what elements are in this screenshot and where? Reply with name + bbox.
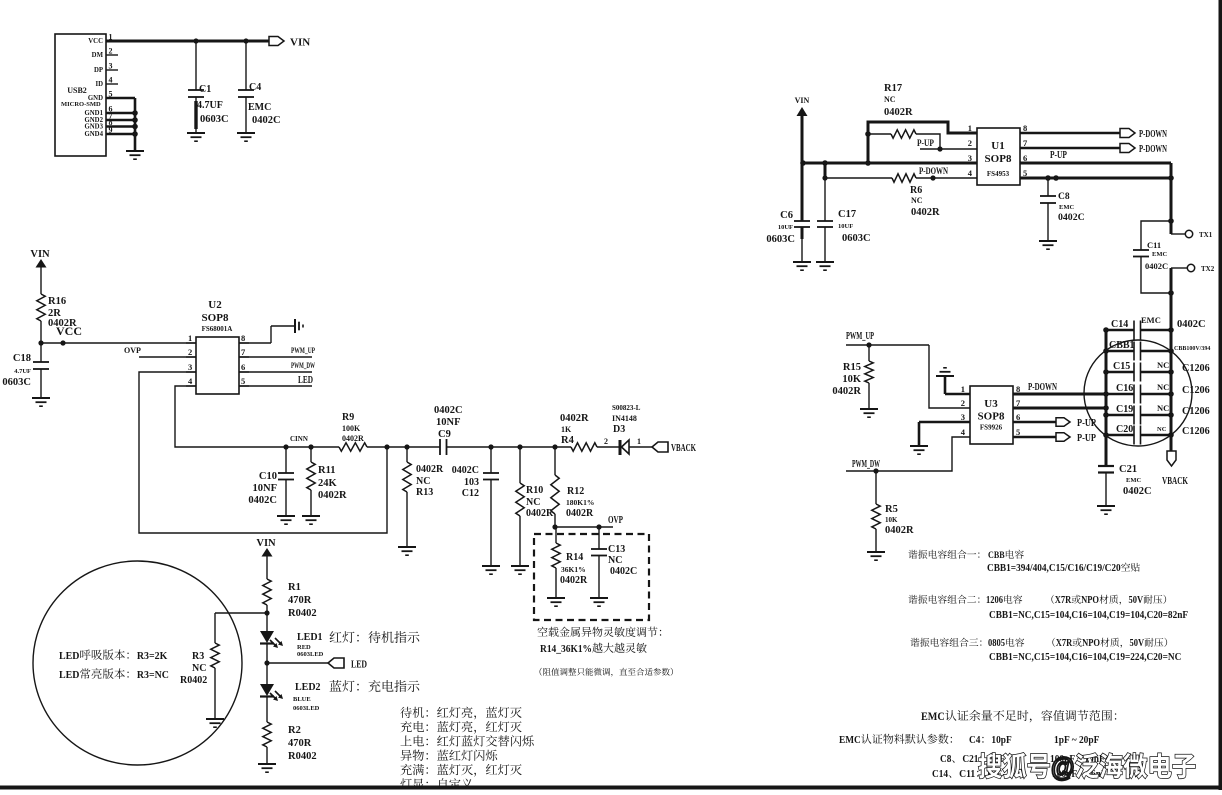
svg-text:ID: ID <box>95 81 103 88</box>
svg-text:GND4: GND4 <box>84 131 103 138</box>
ground <box>1097 506 1115 514</box>
net label VCC <box>56 324 82 338</box>
svg-text:NPO: NPO <box>1081 595 1099 606</box>
svg-text:0402C: 0402C <box>1123 486 1152 497</box>
svg-text:0402R: 0402R <box>832 386 861 397</box>
wire VCC net (USB pin1 to VIN port) <box>106 38 269 43</box>
svg-text:BLUE: BLUE <box>293 696 311 703</box>
svg-text:LED: LED <box>59 650 79 662</box>
svg-text:C4: C4 <box>249 82 261 93</box>
svg-text:FS4953: FS4953 <box>987 170 1010 178</box>
svg-text:OVP: OVP <box>608 515 623 526</box>
power flag VIN (LED branch) <box>256 538 276 579</box>
IC U2 SOP8 FS68001A <box>186 299 249 394</box>
port P-DOWN (U1 pin 7) <box>1020 144 1168 156</box>
net label PWM_DW <box>852 459 880 470</box>
ground <box>816 262 834 270</box>
ground <box>547 598 565 606</box>
svg-text:C13: C13 <box>608 544 625 555</box>
svg-text:180K1%: 180K1% <box>566 498 594 507</box>
svg-text:CINN: CINN <box>290 435 308 443</box>
svg-text:NC: NC <box>1157 403 1169 413</box>
svg-text:LED: LED <box>59 669 79 681</box>
svg-text:@: @ <box>1051 752 1075 782</box>
ground <box>295 319 303 333</box>
resistor R10 <box>516 447 554 566</box>
svg-text:NC: NC <box>192 663 206 674</box>
svg-text:R6: R6 <box>910 185 922 196</box>
svg-text:2: 2 <box>188 347 192 357</box>
svg-text:NC: NC <box>911 196 923 205</box>
svg-text:0402R: 0402R <box>911 207 940 218</box>
svg-text:0603C: 0603C <box>200 114 229 125</box>
svg-text:R0402: R0402 <box>180 675 207 686</box>
svg-text:0402R: 0402R <box>416 464 444 475</box>
dashed annotation box (sensitivity adjust) <box>534 534 649 620</box>
svg-text:C8: C8 <box>940 753 952 765</box>
ground <box>258 764 276 772</box>
net label OVP (R12 node) <box>608 515 623 526</box>
port TX1 <box>1168 218 1213 239</box>
svg-text:EMC: EMC <box>1126 477 1141 484</box>
svg-text:P-DOWN: P-DOWN <box>1139 129 1168 140</box>
svg-text:0402R: 0402R <box>342 434 364 443</box>
svg-text:VBACK: VBACK <box>671 443 696 454</box>
svg-text:0402C: 0402C <box>434 405 463 416</box>
border bottom <box>0 786 1222 790</box>
port VBACK (bottom-right) <box>1162 451 1188 487</box>
svg-text:8: 8 <box>1023 123 1027 133</box>
svg-text:CBB1=NC,C15=104,C16=104,C19=22: CBB1=NC,C15=104,C16=104,C19=224,C20=NC <box>989 652 1181 663</box>
svg-text:R11: R11 <box>318 465 336 476</box>
svg-text:0402C: 0402C <box>1058 212 1085 223</box>
svg-text:2: 2 <box>604 437 608 446</box>
svg-text:R13: R13 <box>416 487 433 498</box>
resistor R3 with wire <box>180 613 219 719</box>
note text: red LED standby <box>330 631 420 643</box>
net label OVP with stub <box>124 346 196 357</box>
resistor R12 <box>551 447 595 527</box>
port VIN top-left <box>269 37 310 49</box>
svg-text:C16: C16 <box>1116 383 1133 394</box>
svg-text:103: 103 <box>464 477 479 488</box>
resistor R13 <box>403 447 444 547</box>
svg-text:P-UP: P-UP <box>917 138 934 148</box>
svg-text:C11: C11 <box>1147 240 1161 250</box>
resistor R16 <box>37 294 77 329</box>
svg-text:0805: 0805 <box>988 638 1005 649</box>
svg-text:0603C: 0603C <box>842 233 871 244</box>
svg-text:10NF: 10NF <box>436 417 461 428</box>
svg-text:0603LED: 0603LED <box>293 705 320 712</box>
port LED <box>264 658 367 671</box>
svg-text:NC: NC <box>608 555 622 566</box>
net label CINN <box>290 435 308 443</box>
svg-text:4: 4 <box>109 76 113 85</box>
svg-text:R9: R9 <box>342 412 354 423</box>
svg-text:0603C: 0603C <box>2 377 31 388</box>
svg-text:OVP: OVP <box>124 346 141 355</box>
wire TX2 to resonant bus <box>1168 268 1174 330</box>
svg-text:R15: R15 <box>843 362 861 373</box>
svg-text:SOP8: SOP8 <box>202 312 229 324</box>
svg-text:0402R: 0402R <box>318 490 347 501</box>
svg-text:FS9926: FS9926 <box>980 424 1003 432</box>
net label PWM_UP (U3) <box>846 331 929 348</box>
border right <box>1219 0 1222 790</box>
svg-text:10UF: 10UF <box>778 224 793 231</box>
ground (inverted) <box>936 368 954 376</box>
svg-text:3: 3 <box>961 412 965 422</box>
svg-text:C6: C6 <box>780 210 793 221</box>
svg-text:D3: D3 <box>613 424 625 435</box>
note text: LED versions <box>59 649 169 681</box>
watermark sohu <box>979 752 1195 782</box>
wire C9 to R4 <box>447 444 572 449</box>
wire VCC node to U2 pin 1 <box>38 321 196 346</box>
svg-text:VCC: VCC <box>88 38 103 45</box>
svg-text:C14: C14 <box>1111 319 1128 330</box>
svg-text:3: 3 <box>968 153 972 163</box>
svg-text:1: 1 <box>968 123 972 133</box>
capacitor C10 <box>248 447 294 516</box>
ground <box>867 552 885 560</box>
capacitor C13 <box>591 527 637 598</box>
wire U3 pin 3 to ground <box>919 422 970 446</box>
svg-text:GND1: GND1 <box>84 110 103 117</box>
ground <box>237 133 255 141</box>
svg-text:P-UP: P-UP <box>1077 433 1096 444</box>
svg-text:NC: NC <box>1157 426 1167 433</box>
capacitor C16 <box>1106 382 1210 404</box>
svg-text:EMC: EMC <box>921 709 945 723</box>
power flag VIN (U1) <box>795 96 810 163</box>
svg-text:C20: C20 <box>1116 424 1133 435</box>
resistor R1 <box>215 579 317 631</box>
svg-text:EMC: EMC <box>248 102 271 113</box>
svg-text:C18: C18 <box>13 353 31 364</box>
svg-text:S00823-L: S00823-L <box>612 404 641 412</box>
wire CINN to C9 <box>367 444 440 449</box>
svg-text:SOP8: SOP8 <box>985 153 1012 165</box>
wire OVP branch from R12 <box>552 524 613 529</box>
wire U1 pin 5 <box>1020 175 1174 181</box>
svg-text:SOP8: SOP8 <box>978 411 1005 423</box>
ground <box>511 566 529 574</box>
port P-UP (U3 pin 5) <box>1013 433 1096 444</box>
svg-text:R1: R1 <box>288 582 301 593</box>
svg-text:PWM_DW: PWM_DW <box>291 360 315 370</box>
svg-text:NPO: NPO <box>1082 638 1100 649</box>
svg-text:R3=NC: R3=NC <box>137 669 169 681</box>
resistor R17 <box>868 83 940 149</box>
ground <box>206 719 224 727</box>
ground <box>187 133 205 141</box>
resistor R11 <box>307 447 347 516</box>
note text: LED state list <box>400 707 533 790</box>
svg-text:GND3: GND3 <box>84 124 103 131</box>
svg-text:0402C: 0402C <box>1145 261 1168 271</box>
svg-text:PWM_UP: PWM_UP <box>291 345 315 355</box>
svg-text:R14: R14 <box>566 552 583 563</box>
svg-text:8: 8 <box>241 333 245 343</box>
capacitor C15 <box>1106 360 1210 382</box>
LED LED2 (blue, charging) <box>260 663 321 722</box>
svg-text:X7R: X7R <box>1055 595 1072 606</box>
svg-text:R2: R2 <box>288 725 301 736</box>
net label P-DOWN (U3 pin 8) <box>1028 382 1058 393</box>
wire U1 pin 1 loop <box>865 122 977 163</box>
svg-text:NC: NC <box>884 95 896 104</box>
capacitor C20 <box>1106 424 1210 445</box>
resistor R6 (U1 pin 4 net) <box>822 174 977 218</box>
svg-text:10pF: 10pF <box>991 734 1012 746</box>
capacitor C12 <box>452 447 499 566</box>
svg-text:VIN: VIN <box>256 538 276 549</box>
net label PWM_UP (U2 pin 7) <box>239 345 315 357</box>
svg-text:6: 6 <box>241 362 245 372</box>
svg-text:TX2: TX2 <box>1201 265 1215 273</box>
svg-text:C1206: C1206 <box>1182 385 1210 396</box>
resistor R2 <box>263 722 317 764</box>
svg-text:2: 2 <box>961 398 965 408</box>
svg-text:2: 2 <box>109 47 113 56</box>
svg-text:X7R: X7R <box>1056 638 1073 649</box>
svg-text:C12: C12 <box>462 488 479 499</box>
net label P-DOWN (U1 pin 4) <box>919 167 948 177</box>
svg-text:IN4148: IN4148 <box>612 414 637 423</box>
ground <box>910 446 928 454</box>
svg-text:0402R: 0402R <box>560 413 589 424</box>
wire U2 pin 4 to CINN net <box>175 386 286 447</box>
wire U3 pin 4 to PWM_DW <box>846 437 970 474</box>
svg-text:PWM_DW: PWM_DW <box>852 459 880 470</box>
svg-text:C15: C15 <box>1113 361 1130 372</box>
svg-text:100K: 100K <box>342 424 361 433</box>
svg-text:LED1: LED1 <box>297 632 323 643</box>
svg-text:R17: R17 <box>884 83 902 94</box>
svg-text:R10: R10 <box>526 485 543 496</box>
capacitor C18 <box>2 343 49 398</box>
svg-text:EMC: EMC <box>1059 204 1074 211</box>
svg-text:0402R: 0402R <box>566 508 594 519</box>
svg-text:0402R: 0402R <box>885 525 914 536</box>
svg-text:MICRO-SMD: MICRO-SMD <box>61 101 101 108</box>
ground <box>126 151 144 159</box>
svg-text:R4: R4 <box>561 435 575 446</box>
svg-text:R0402: R0402 <box>288 751 317 762</box>
note text: metal foreign object sensitivity <box>537 627 673 677</box>
IC U3 SOP8 FS9926 <box>961 384 1021 444</box>
svg-text:5: 5 <box>241 376 245 386</box>
svg-text:50V: 50V <box>1130 638 1145 649</box>
svg-text:NC: NC <box>416 476 430 487</box>
svg-text:5: 5 <box>1016 427 1020 437</box>
svg-text:470R: 470R <box>288 738 312 749</box>
ground <box>1039 241 1057 249</box>
svg-text:0402R: 0402R <box>526 508 554 519</box>
wire USB ground bus <box>106 98 138 150</box>
annotation circle (LED version note) <box>33 561 242 765</box>
svg-text:0603C: 0603C <box>766 234 795 245</box>
svg-text:VCC: VCC <box>56 324 82 338</box>
svg-text:LED: LED <box>351 660 367 671</box>
svg-text:1206: 1206 <box>986 595 1003 606</box>
svg-text:R14_36K1%: R14_36K1% <box>540 644 592 655</box>
svg-text:C19: C19 <box>1116 404 1133 415</box>
svg-text:CBB1=394/404,C15/C16/C19/C20: CBB1=394/404,C15/C16/C19/C20 <box>987 563 1121 574</box>
ground <box>398 547 416 555</box>
svg-text:1pF ~ 20pF: 1pF ~ 20pF <box>1054 734 1100 746</box>
connector USB2 MICRO-SMD <box>55 33 118 157</box>
svg-text:1: 1 <box>961 384 965 394</box>
svg-text:VIN: VIN <box>30 249 50 260</box>
svg-text:2: 2 <box>968 138 972 148</box>
capacitor C1 <box>188 41 229 133</box>
svg-text:C14: C14 <box>932 768 949 780</box>
svg-text:P-DOWN: P-DOWN <box>1139 144 1168 155</box>
svg-text:P-UP: P-UP <box>1050 150 1067 161</box>
svg-text:0402C: 0402C <box>452 465 479 476</box>
svg-text:CBB: CBB <box>988 551 1005 561</box>
svg-text:0402C: 0402C <box>1177 319 1206 330</box>
ground <box>32 398 50 406</box>
capacitor C17 <box>817 163 871 262</box>
svg-text:C1206: C1206 <box>1182 406 1210 417</box>
net label P-UP (U1 pin 6) <box>1050 150 1067 161</box>
capacitor C4 <box>238 41 281 133</box>
svg-text:24K: 24K <box>318 478 338 489</box>
svg-text:TX1: TX1 <box>1199 231 1213 239</box>
port TX2 <box>1171 264 1215 273</box>
net label P-UP (U1 pin 2) <box>917 138 977 152</box>
wire resonant cap left bus <box>1103 327 1109 466</box>
svg-text:NC: NC <box>1157 360 1169 370</box>
capacitor C19 <box>1106 403 1210 425</box>
svg-text:10NF: 10NF <box>253 483 278 494</box>
svg-text:10K: 10K <box>885 516 898 524</box>
wire resonant cap right bus <box>1168 327 1174 451</box>
svg-text:C4: C4 <box>969 734 981 746</box>
capacitor C11 <box>1133 221 1171 293</box>
svg-text:EMC: EMC <box>839 734 861 746</box>
svg-text:470R: 470R <box>288 595 312 606</box>
svg-text:RED: RED <box>297 644 311 651</box>
diode D3 <box>612 404 652 455</box>
svg-text:P-DOWN: P-DOWN <box>919 167 948 177</box>
svg-text:C10: C10 <box>259 471 277 482</box>
ground <box>590 598 608 606</box>
ground <box>277 516 295 524</box>
svg-text:10K: 10K <box>842 374 862 385</box>
wire U2 pin 3 loop to CINN node <box>139 372 387 533</box>
svg-text:R12: R12 <box>567 486 584 497</box>
wire U3 pin 7 to cap bus <box>1013 405 1109 411</box>
svg-text:1K: 1K <box>561 425 572 434</box>
svg-text:NC: NC <box>526 497 540 508</box>
svg-text:10UF: 10UF <box>838 223 853 230</box>
svg-text:LED: LED <box>298 375 313 386</box>
note text: resonant cap combos <box>908 550 1188 663</box>
ground <box>482 566 500 574</box>
wire U3 pin 2 from PWM_UP <box>929 345 970 408</box>
LED LED1 (red, standby) <box>260 631 324 663</box>
svg-text:R16: R16 <box>48 296 66 307</box>
svg-text:CBB1=NC,C15=104,C16=104,C19=10: CBB1=NC,C15=104,C16=104,C19=104,C20=82nF <box>989 610 1188 621</box>
svg-text:R0402: R0402 <box>288 608 317 619</box>
resistor R9 <box>339 412 367 451</box>
svg-text:0402R: 0402R <box>884 107 913 118</box>
capacitor C14 <box>1106 315 1206 340</box>
capacitor C8 <box>1040 178 1085 241</box>
svg-text:C17: C17 <box>838 209 856 220</box>
svg-text:EMC: EMC <box>1141 315 1161 325</box>
svg-text:50V: 50V <box>1129 595 1144 606</box>
svg-text:0402R: 0402R <box>560 575 588 586</box>
ground <box>302 516 320 524</box>
capacitor C9 <box>434 405 463 455</box>
svg-text:FS68001A: FS68001A <box>202 325 233 333</box>
svg-text:VIN: VIN <box>290 37 310 49</box>
svg-text:3: 3 <box>188 362 192 372</box>
resistor R15 <box>832 345 873 409</box>
capacitor C6 <box>766 163 810 262</box>
svg-text:4.7UF: 4.7UF <box>14 368 31 375</box>
port P-DOWN (U1 pin 8) <box>1020 129 1168 141</box>
note text: EMC adjust range <box>839 709 1116 780</box>
svg-text:U2: U2 <box>208 299 222 311</box>
svg-text:LED2: LED2 <box>295 682 321 693</box>
ground <box>860 409 878 417</box>
wire U1 pin 6 to TX bus <box>1020 163 1171 234</box>
svg-text:C1206: C1206 <box>1182 426 1210 437</box>
wire U3 pin 1 to inverted ground <box>945 376 970 394</box>
net label PWM_DW (U2 pin 6) <box>239 360 315 372</box>
resistor R14 <box>552 527 588 598</box>
port P-UP (U3 pin 6) <box>1013 418 1096 429</box>
svg-text:6: 6 <box>1016 412 1020 422</box>
svg-text:R3: R3 <box>192 651 204 662</box>
svg-text:1: 1 <box>188 333 192 343</box>
svg-text:VBACK: VBACK <box>1162 476 1188 487</box>
svg-text:U1: U1 <box>991 140 1004 152</box>
svg-text:R5: R5 <box>885 504 898 515</box>
ground <box>793 262 811 270</box>
svg-text:0402C: 0402C <box>252 115 281 126</box>
note text: blue LED charging <box>330 680 420 692</box>
svg-text:C1: C1 <box>199 84 211 95</box>
capacitor CBB1 <box>1106 340 1210 361</box>
svg-text:DM: DM <box>92 52 104 59</box>
resistor R5 <box>872 471 914 552</box>
wire VIN bus to U1 pin 3 <box>800 160 977 166</box>
svg-text:PWM_UP: PWM_UP <box>846 331 874 342</box>
svg-text:EMC: EMC <box>1152 251 1167 258</box>
wire U3 pin 8 (P-DOWN) to cap bus <box>1013 393 1106 396</box>
wire U2 pin 8 to ground <box>239 326 294 343</box>
svg-text:CBB100V/394: CBB100V/394 <box>1174 346 1210 352</box>
svg-text:0603LED: 0603LED <box>297 651 324 658</box>
net label LED (U2 pin 5) <box>239 375 313 386</box>
svg-text:C9: C9 <box>438 429 451 440</box>
svg-text:C21: C21 <box>962 753 978 765</box>
port VBACK (mid) <box>652 442 696 454</box>
svg-text:4.7UF: 4.7UF <box>197 100 223 111</box>
svg-text:0402C: 0402C <box>248 495 277 506</box>
power flag VIN (R16 top) <box>30 249 50 294</box>
svg-text:R3=2K: R3=2K <box>137 650 168 662</box>
svg-text:C21: C21 <box>1119 464 1137 475</box>
